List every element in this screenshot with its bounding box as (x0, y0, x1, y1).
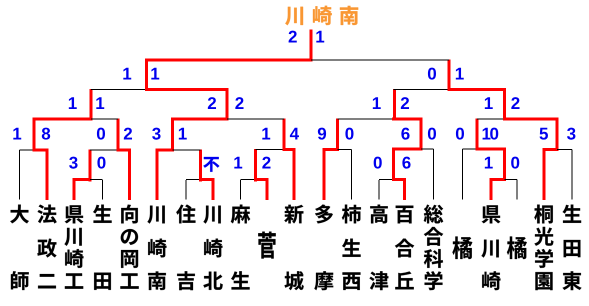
svg-text:8: 8 (41, 125, 50, 144)
walkover mark 不 (203, 157, 219, 172)
wire match 高津-百合丘 right (394, 178, 405, 181)
wire riser 向の岡工 (117, 119, 120, 152)
svg-text:0: 0 (510, 154, 519, 173)
team name 法政二 (37, 205, 56, 289)
team name 総合科学 (424, 205, 443, 290)
wire match 大師-法政二 left (20, 149, 35, 151)
wire match 多摩-柿生西 right (338, 149, 352, 151)
wire match 住吉-川崎北 right (201, 178, 214, 181)
svg-text:1: 1 (484, 94, 493, 113)
wire riser QF-R2 winner 桐光学園 (503, 88, 506, 121)
wire team line 多摩 (323, 148, 326, 200)
wire riser 百合丘 to QF (420, 118, 423, 151)
wire team line 大師 (19, 150, 21, 200)
wire match 県川崎工-生田 left (74, 178, 90, 181)
wire team line 桐光学園 (543, 148, 546, 200)
wire match 県川崎工-向の岡工 left (90, 149, 118, 151)
wire match 桐光学園-生田東 left (544, 148, 557, 151)
wire QF 県川崎-桐光学園 right (505, 118, 558, 121)
wire match 県川崎工-向の岡工 right (118, 149, 130, 152)
team name 柿生西 (342, 205, 361, 290)
team name 向の岡工 (120, 205, 138, 289)
svg-text:2: 2 (207, 94, 216, 113)
svg-text:4: 4 (290, 125, 300, 144)
svg-text:3: 3 (152, 125, 161, 144)
svg-text:1: 1 (150, 65, 159, 84)
wire team line 県川崎 (490, 179, 493, 201)
team name 川崎北 (203, 206, 222, 290)
svg-text:2: 2 (123, 125, 132, 144)
wire match 川崎南-川崎北 left (157, 149, 173, 152)
wire team line 菅 (266, 179, 269, 201)
wire match 菅-新城 left (256, 149, 285, 151)
wire QF 法政二-向の岡工 left (34, 118, 91, 121)
wire team line 川崎北 (212, 179, 215, 201)
wire riser QF-R1 winner 百合丘 (393, 89, 396, 121)
svg-text:6: 6 (401, 125, 410, 144)
wire riser R1 winner 法政二 (33, 118, 36, 152)
wire team line 川崎南 (156, 149, 159, 201)
wire match 麻生-菅 right (256, 178, 268, 181)
team name 桐光学園 (534, 205, 553, 290)
wire team line 県川崎工 (73, 179, 76, 201)
wire team line 生田 (102, 180, 104, 200)
wire team line 住吉 (185, 180, 187, 200)
wire team line 橘(2) (516, 180, 518, 200)
wire match 県川崎工-生田 right (90, 179, 103, 181)
wire match 橘-県川崎 left (463, 148, 478, 150)
wire match 県川崎-橘 right (505, 179, 518, 181)
wire final right (311, 59, 449, 61)
team name 県川崎工 (64, 205, 83, 288)
wire QF 法政二-向の岡工 right (91, 118, 118, 120)
team name 住吉 (176, 205, 195, 291)
wire match 多摩-柿生西 left (324, 148, 338, 151)
wire match 高津-百合丘 left (379, 179, 394, 181)
wire QF 川崎南-新城 right (227, 118, 284, 120)
team name 川崎南 (147, 206, 166, 290)
svg-text:6: 6 (402, 154, 411, 173)
svg-text:5: 5 (539, 125, 548, 144)
wire riser SF-L winner 川崎南 (145, 59, 148, 92)
wire match 橘-県川崎 right (477, 148, 505, 151)
svg-text:2: 2 (262, 154, 271, 173)
team name 百合丘 (395, 206, 414, 290)
wire match 川崎南-川崎北 right (173, 149, 201, 151)
wire match 麻生-菅 left (241, 179, 256, 181)
svg-text:1: 1 (372, 94, 381, 113)
wire team line 向の岡工 (128, 149, 131, 201)
wire QF 多摩-百合丘 left (338, 118, 394, 120)
team name 橘 (452, 236, 472, 259)
svg-text:1: 1 (261, 125, 270, 144)
wire riser 多摩 (336, 119, 339, 152)
wire team line 法政二 (46, 149, 49, 201)
svg-text:0: 0 (455, 125, 464, 144)
wire riser 菅 (254, 149, 257, 182)
wire match 百合丘-総合科学 left (394, 148, 422, 151)
svg-text:1: 1 (233, 154, 242, 173)
svg-text:1: 1 (122, 65, 131, 84)
wire match 桐光学園-生田東 right (557, 149, 572, 151)
svg-text:2: 2 (235, 94, 244, 113)
svg-text:1: 1 (12, 125, 21, 144)
wire QF 川崎南-新城 left (173, 118, 228, 121)
svg-text:1: 1 (455, 65, 464, 84)
wire team line 麻生 (240, 180, 242, 200)
svg-text:1: 1 (68, 94, 77, 113)
svg-text:0: 0 (427, 65, 436, 84)
svg-text:3: 3 (69, 154, 78, 173)
team name 県川崎 (481, 205, 500, 290)
wire riser 県川崎工 (89, 150, 92, 182)
team name 菅 (258, 232, 275, 259)
svg-text:1: 1 (95, 94, 104, 113)
svg-text:2: 2 (288, 28, 297, 47)
svg-text:0: 0 (97, 154, 106, 173)
wire QF 多摩-百合丘 right (394, 118, 422, 121)
wire SF-L left (91, 89, 147, 91)
svg-text:0: 0 (373, 154, 382, 173)
wire match 百合丘-総合科学 right (421, 148, 434, 150)
wire riser 川崎南 (171, 118, 174, 152)
svg-text:9: 9 (317, 125, 326, 144)
svg-text:2: 2 (511, 94, 520, 113)
team name 生田東 (563, 205, 582, 290)
svg-text:1: 1 (315, 28, 324, 47)
svg-text:0: 0 (96, 125, 105, 144)
wire match 住吉-川崎北 left (186, 179, 201, 181)
wire riser SF-R winner 桐光学園 (448, 60, 451, 92)
team name 高津 (370, 205, 389, 290)
svg-text:1: 1 (178, 125, 187, 144)
svg-text:0: 0 (345, 125, 354, 144)
wire SF-R right (449, 88, 505, 91)
wire team line 柿生西 (351, 150, 353, 200)
wire match 県川崎-橘 left (491, 178, 505, 181)
wire team line 高津 (378, 180, 380, 200)
wire team line 生田東 (571, 150, 573, 200)
team name 新城 (284, 205, 303, 290)
wire final left (147, 59, 312, 62)
wire riser B-block winner 川崎南 (226, 88, 229, 121)
champion title 川崎南 (285, 6, 358, 25)
team name 橘 (507, 236, 527, 259)
wire SF-R left (394, 89, 450, 91)
wire team line 総合科学 (433, 149, 435, 200)
wire team line 橘(1) (462, 149, 464, 200)
wire match 大師-法政二 right (34, 149, 47, 152)
wire riser QF-A winner 法政二 (90, 89, 93, 121)
wire riser 県川崎 to QF (476, 119, 479, 151)
wire riser 百合丘 (392, 148, 395, 182)
wire SF-L right (147, 88, 228, 91)
team name 生田 (93, 205, 112, 290)
wire champion riser 川崎南 (310, 30, 313, 62)
svg-text:1: 1 (484, 154, 493, 173)
wire riser 桐光学園 (556, 118, 559, 152)
wire team line 百合丘 (403, 179, 406, 201)
svg-text:2: 2 (400, 94, 409, 113)
svg-text:10: 10 (482, 125, 499, 144)
wire team line 新城 (293, 148, 296, 200)
team name 麻生 (231, 205, 250, 290)
team name 大師 (10, 205, 29, 290)
wire match 菅-新城 right (284, 148, 294, 151)
svg-text:0: 0 (427, 125, 436, 144)
team name 多摩 (314, 205, 333, 291)
wire QF 県川崎-桐光学園 left (477, 118, 505, 120)
svg-text:3: 3 (567, 125, 576, 144)
wire riser 県川崎 (503, 148, 506, 182)
wire riser 川崎北 (199, 150, 202, 182)
wire riser 新城 (283, 119, 286, 152)
